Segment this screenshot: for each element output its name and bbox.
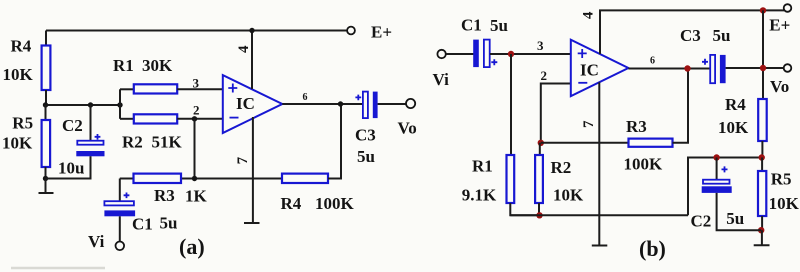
wire C2 bottom lead to ground node [46,156,91,178]
capacitor C2 10u (a) bottom plate [76,151,104,156]
capacitor C1 5u (a) bottom plate [104,210,135,216]
svg-text:9.1K: 9.1K [462,186,497,205]
svg-text:R3: R3 [626,117,647,136]
wire C1 to pin3 node (b) [490,53,571,55]
wire R5 bottom to ground node (b) [761,216,763,230]
capacitor C1 5u (a) top plate [104,201,133,205]
svg-text:Vi: Vi [433,70,450,89]
svg-text:(b): (b) [639,236,666,261]
svg-text:6: 6 [650,56,655,67]
plus input mark of IC (a) [228,84,237,93]
wire pin 4 (b) to top rail [600,10,784,54]
wire R4 bottom to node A [45,90,47,105]
wire C3 to Vo terminal (a) [378,103,406,105]
node A wire (a) horizontal [45,104,120,106]
resistor R1 9.1K (b) [507,155,515,203]
svg-text:C3: C3 [355,126,376,145]
svg-text:1K: 1K [185,187,208,206]
wire pin 7 (b) down to ground [598,82,600,245]
svg-text:R1: R1 [472,157,493,176]
capacitor C2 5u (b) top plate [703,180,730,184]
junction dot feedback node (a) [192,176,197,181]
op-amp IC (a) triangle [223,75,282,133]
wire R1 right to op-amp pin 3 [177,88,223,90]
plus mark of C3 (a) [355,95,361,101]
minus input mark of IC (b) [578,82,587,84]
terminal E+ (b) [784,4,792,12]
svg-text:C3: C3 [680,26,701,45]
junction dot node A left [43,102,48,107]
svg-text:10K: 10K [718,118,749,137]
resistor R4 100K (a, bottom) [282,174,328,183]
svg-text:R5: R5 [771,170,792,189]
wire R2 bottom to bottom rail (b) [538,203,540,215]
capacitor C3 5u (b) left plate [710,55,715,83]
junction dot pin3 node (b) [508,51,514,57]
wire C2 bottom to ground node (b) [717,193,761,230]
junction dot top rail (b) [760,7,766,13]
capacitor C3 5u (a) right plate [373,92,378,119]
svg-text:R5: R5 [12,114,33,133]
svg-text:R2: R2 [122,133,143,152]
wire pin 4 (a) power [251,31,253,90]
wire C1 bottom to Vi terminal [119,216,121,241]
svg-text:Vo: Vo [770,77,789,96]
junction dot ground node (b) [758,227,764,233]
junction dot Vo node (b) [760,65,766,71]
svg-text:R2: R2 [551,158,572,177]
junction dot feedback tap on output (b) [684,65,690,71]
svg-text:30K: 30K [142,56,173,75]
svg-text:10K: 10K [769,194,800,213]
svg-text:E+: E+ [769,16,790,35]
ground (b, pin7) [592,245,608,247]
svg-text:R4: R4 [11,37,32,56]
junction dot output node (a) [338,101,343,106]
junction dot pin2 node (a) [192,116,197,121]
terminal Vi (a) [116,242,125,251]
resistor R2 51K (a) [134,114,177,123]
wire R3 right up to output (b) [673,69,689,143]
capacitor C2 10u (a) top plate [77,141,103,145]
svg-text:IC: IC [580,61,599,80]
ground (b, right) [754,230,770,245]
svg-text:10K: 10K [553,186,584,205]
svg-text:(a): (a) [179,234,205,259]
feedback wire (a) bottom horizontal [120,178,282,180]
svg-text:Vi: Vi [88,232,105,251]
wire node A to R1/R2 split [119,89,121,119]
wire supply rail down (b) [762,10,764,99]
wire node B to R5 (b) [761,158,763,172]
plus mark of C3 (b) [702,59,708,65]
svg-text:IC: IC [236,94,255,113]
junction dot pin2 node (b) [538,140,544,146]
svg-text:7: 7 [235,156,251,164]
svg-text:100K: 100K [315,194,355,213]
plus mark of C1 (a) [124,193,130,199]
capacitor C3 5u (b) right plate [720,55,726,83]
wire C2 top lead (b) [716,158,718,181]
wire op-amp output (a) [282,103,363,105]
terminal Vo (b) [784,64,792,72]
svg-text:C1: C1 [132,215,153,234]
svg-text:100K: 100K [624,154,664,173]
minus input mark of IC (a) [230,117,239,119]
svg-text:2: 2 [193,103,200,118]
wire to R2 left [120,118,134,120]
wire C1 top lead from feedback wire [119,179,121,202]
junction dot pin4 on top rail (a) [249,28,254,33]
wire pin 7 (a) down to ground [252,117,254,223]
wire R2 right to op-amp pin 2 [177,118,223,120]
wire bottom rail corner up to node B (b) [688,158,763,216]
wire pin3 node down to R1 (b) [510,54,512,155]
svg-text:R1: R1 [113,56,134,75]
bottom rail wire (b) [510,214,688,216]
wire R4(100K) right up to output [328,104,341,179]
terminal Vo (a) [406,99,415,108]
capacitor C1 5u (b) left plate [473,40,479,68]
wire pin2 node down to R2 (b) [539,143,541,155]
terminal E+ (a) [347,27,355,35]
junction dot node A at C2 [88,102,93,107]
svg-text:E+: E+ [371,23,392,42]
wire top rail (a) [46,30,347,32]
resistor R4 10K (b) [758,99,767,141]
resistor R5 10K (b) [758,171,766,216]
plus mark of C2 (a) [95,134,101,140]
svg-text:2: 2 [541,68,548,83]
svg-text:5u: 5u [726,209,744,228]
ground (a left) [39,179,54,194]
resistor R2 10K (b) [535,155,543,203]
wire node A to R5 [45,105,47,120]
resistor R5 10K (a, left vertical) [42,120,51,167]
plus mark of C2 (b) [722,166,728,172]
svg-text:10K: 10K [2,134,33,153]
svg-text:4: 4 [581,11,597,19]
svg-text:R4: R4 [725,95,746,114]
wire R1 bottom corner to bottom rail (b) [510,203,540,215]
svg-text:5u: 5u [490,16,508,35]
scan artifact line bottom left [11,267,105,270]
resistor R3 1K (a) [134,174,182,183]
svg-text:C1: C1 [461,16,482,35]
capacitor C3 5u (a) left plate [363,92,368,119]
junction dot ground node (a) [43,176,48,181]
svg-text:10K: 10K [3,65,34,84]
svg-text:5u: 5u [713,26,731,45]
resistor R4 10K (a, left vertical) [42,46,51,91]
wire R4 bottom to node B (b) [761,141,763,158]
terminal Vi (b) [437,50,445,58]
svg-text:C2: C2 [62,116,83,135]
svg-text:51K: 51K [152,133,183,152]
wire R5 bottom to ground node [45,167,47,179]
svg-text:4: 4 [236,45,252,53]
resistor R3 100K (b) [629,139,673,147]
svg-text:10u: 10u [58,159,84,178]
svg-text:6: 6 [303,92,308,103]
junction dot node B at C2 (b) [713,154,719,160]
svg-text:Vo: Vo [398,119,417,138]
plus mark of C1 (b) [491,59,497,65]
svg-text:C2: C2 [691,212,712,231]
wire op-amp pin2 (b) [541,84,571,143]
svg-text:3: 3 [193,76,200,91]
wire left drop from top rail to R4 [45,31,47,47]
wire to R1 left [120,88,134,90]
capacitor C1 5u (b) right plate [484,40,490,68]
ground (a, pin7) [244,222,260,224]
plus input mark of IC (b) [578,49,587,58]
wire C2 top lead [90,105,92,141]
wire C3 to Vo terminal (b) [726,67,784,69]
op-amp IC (b) triangle [571,40,629,96]
capacitor C2 5u (b) bottom plate [702,186,732,193]
svg-text:5u: 5u [160,214,178,233]
resistor R1 30K (a) [134,84,177,93]
svg-text:7: 7 [581,120,597,128]
junction dot node B at R4/R5 (b) [759,154,765,160]
junction dot bottom rail at R2 (b) [536,212,542,218]
junction dot node A right [117,102,122,107]
svg-text:R4: R4 [281,194,302,213]
svg-text:3: 3 [537,38,544,53]
svg-text:5u: 5u [357,147,375,166]
wire pin2 node down to feedback node [194,119,196,179]
wire pin2 node to R3 (b) [541,142,629,144]
svg-text:R3: R3 [154,186,175,205]
wire Vi to C1 (b) [446,53,474,55]
wire op-amp output (b) [628,68,710,70]
